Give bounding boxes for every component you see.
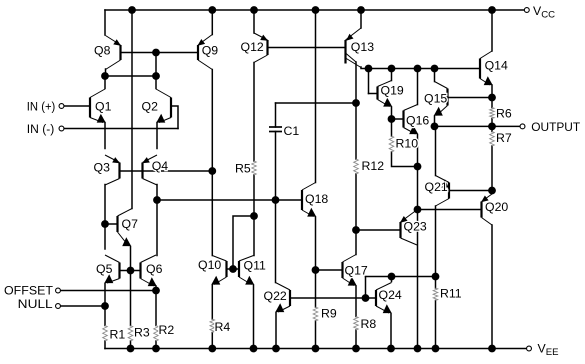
transistor Q11 emitter arrow xyxy=(245,276,254,285)
wire NULL to R1 top node xyxy=(61,305,105,307)
transistor Q24 top lead xyxy=(376,283,392,291)
wire Q10/Q11 base link xyxy=(227,268,240,270)
svg-text:R2: R2 xyxy=(159,323,175,337)
transistor Q8 bar xyxy=(119,45,121,60)
resistor R3 xyxy=(128,326,133,342)
transistor Q4 bottom lead xyxy=(143,179,158,186)
resistor R9 xyxy=(313,307,318,321)
terminal NULL xyxy=(56,304,61,309)
junction VEE/R9 xyxy=(312,345,320,353)
wire Q13 collector 1 down to R12 node xyxy=(355,62,357,103)
transistor Q22 emitter arrow xyxy=(275,303,284,312)
terminal IN(+) xyxy=(59,104,64,109)
wire Q24 base node up to collector node xyxy=(365,277,367,299)
svg-text:Q14: Q14 xyxy=(485,59,508,73)
wire Q6 emitter down to OFFSET node xyxy=(155,286,157,291)
transistor Q16 bottom lead xyxy=(404,128,416,135)
junction VCC/Q7 collector xyxy=(128,6,136,14)
transistor Q16 emitter arrow xyxy=(409,125,418,134)
svg-text:Q18: Q18 xyxy=(305,192,328,206)
svg-text:Q19: Q19 xyxy=(381,84,404,98)
transistor Q24 emitter arrow xyxy=(383,304,392,313)
wire Q19 base link xyxy=(369,93,378,95)
junction VCC/Q13 emitter xyxy=(357,6,365,14)
transistor Q5 emitter arrow xyxy=(104,274,113,283)
junction VEE/R11 xyxy=(432,345,440,353)
transistor Q14 bottom lead xyxy=(480,79,490,86)
wire Q21 base link xyxy=(449,190,492,192)
wire NULL node down to R1 xyxy=(104,306,106,326)
resistor R7 xyxy=(490,132,495,147)
junction VEE/Q20 collector xyxy=(488,345,496,353)
wire Q8 collector down to node xyxy=(105,69,107,76)
junction Q24 base node xyxy=(362,294,370,302)
svg-text:R8: R8 xyxy=(361,317,377,331)
svg-text:Q24: Q24 xyxy=(379,288,402,302)
wire Q10 emitter down to R4 xyxy=(211,285,213,319)
wire node down to Q11 collector diag xyxy=(253,216,255,256)
transistor Q21 emitter lead xyxy=(436,176,450,183)
terminal VCC xyxy=(524,8,529,13)
wire Q5/Q6 base node down to R3 xyxy=(130,271,132,326)
junction Q21 collector - R11 xyxy=(432,273,440,281)
wire Q17 base node down to R9 xyxy=(315,270,317,307)
transistor Q23 bottom lead xyxy=(401,238,418,245)
svg-text:Q22: Q22 xyxy=(264,289,287,303)
junction OFFSET - Q6 emitter xyxy=(152,287,160,295)
junction bias rail - Q15 collector xyxy=(431,65,439,73)
wire Q8 collector node link xyxy=(105,75,156,77)
junction C1 top - R12 top xyxy=(352,99,360,107)
wire base node down to Q8 collector node xyxy=(155,53,157,77)
transistor Q12 bar xyxy=(266,40,268,55)
junction VCC/Q18 collector xyxy=(312,6,320,14)
svg-text:NULL: NULL xyxy=(18,297,53,311)
svg-text:IN (-): IN (-) xyxy=(27,122,55,136)
transistor Q3 bottom lead xyxy=(105,179,120,186)
wire OFFSET node down to R2 xyxy=(155,291,157,326)
transistor Q8 top lead xyxy=(106,36,121,46)
transistor Q11 top lead xyxy=(239,256,254,262)
transistor Q8 bottom lead xyxy=(106,60,121,70)
junction Q24 collector node xyxy=(388,273,396,281)
transistor Q21 collector lead xyxy=(436,199,450,207)
junction VEE/Q20-base column xyxy=(414,345,422,353)
transistor Q16 top lead xyxy=(404,105,418,111)
svg-text:VEE: VEE xyxy=(538,342,559,359)
wire Q24 emitter down to VEE rail xyxy=(390,314,392,349)
wire R1 bottom to VEE rail xyxy=(104,341,106,349)
svg-text:Q10: Q10 xyxy=(198,258,221,272)
svg-text:R6: R6 xyxy=(496,107,512,121)
junction VEE/R4 xyxy=(208,345,216,353)
svg-text:Q13: Q13 xyxy=(351,40,374,54)
transistor Q15 bottom lead xyxy=(437,106,448,116)
transistor Q9 emitter arrow xyxy=(198,39,206,46)
wire IN(+) to Q1 base xyxy=(64,105,90,107)
svg-text:Q4: Q4 xyxy=(152,159,169,173)
transistor Q7 bottom lead xyxy=(118,232,129,246)
wire Q12 collector down to R5 xyxy=(253,63,255,162)
junction VEE/Q24 emitter xyxy=(387,345,395,353)
resistor R2 xyxy=(154,326,159,342)
junction Q20 base node xyxy=(414,206,422,214)
wire R2 bottom to VEE rail xyxy=(155,341,157,349)
transistor Q23 emitter arrow xyxy=(400,216,408,223)
svg-text:Q5: Q5 xyxy=(96,262,113,276)
junction VEE/R2 xyxy=(152,345,160,353)
transistor Q15 top lead xyxy=(435,82,448,89)
wire R9 bottom to VEE rail xyxy=(315,321,317,349)
wire Q19 emitter down to Q16 base node xyxy=(391,107,393,119)
transistor Q6 top lead xyxy=(141,255,157,263)
transistor Q5 bar xyxy=(118,263,120,279)
transistor Q18 top lead xyxy=(302,183,316,191)
wire R11 node down to R11 xyxy=(435,277,437,289)
svg-text:IN (+): IN (+) xyxy=(27,100,56,114)
wire Q22 emitter down to VEE rail xyxy=(275,313,277,349)
transistor Q2 bar xyxy=(170,98,172,118)
wire Q5/Q6 base link xyxy=(120,270,141,272)
transistor Q12 emitter arrow xyxy=(260,35,268,41)
svg-text:Q8: Q8 xyxy=(94,44,111,58)
wire R5 bottom to Q11 collector node xyxy=(253,175,255,216)
wire bias node down to Q19 base xyxy=(368,69,370,94)
transistor Q18 bar xyxy=(301,190,303,210)
svg-text:R9: R9 xyxy=(321,307,337,321)
wire Q15 base node down to R6 xyxy=(491,98,493,108)
junction Q4/Q6 collectors node xyxy=(153,196,161,204)
transistor Q13 collector 2 lead xyxy=(346,58,362,68)
wire Q1 emitter down to Q3 emitter xyxy=(104,123,106,149)
transistor Q13 bar xyxy=(344,40,346,64)
resistor R4 xyxy=(210,319,215,333)
transistor Q17 top lead xyxy=(343,255,357,263)
wire C1 top lead xyxy=(275,103,277,127)
transistor Q17 bottom lead xyxy=(343,278,355,286)
transistor Q19 bottom lead xyxy=(378,100,390,107)
resistor R12 xyxy=(354,159,359,174)
transistor Q20 bar xyxy=(480,202,482,218)
wire output node to OUTPUT terminal xyxy=(492,125,520,127)
transistor Q3 top lead xyxy=(105,155,120,163)
wire R12 node down to R12 xyxy=(355,103,357,159)
wire VCC corner down to Q8 emitter xyxy=(104,10,106,35)
junction output node xyxy=(488,123,496,131)
transistor Q22 bottom lead xyxy=(278,306,290,312)
svg-text:Q20: Q20 xyxy=(485,200,508,214)
wire Q22 base to Q24 base xyxy=(290,297,376,299)
capacitor C1 xyxy=(269,127,282,132)
transistor Q15 emitter arrow xyxy=(434,107,443,116)
wire Q20 base node down to VEE rail xyxy=(417,210,419,349)
wire node down to Q6 collector xyxy=(156,200,158,256)
wire output node down to Q21 emitter xyxy=(435,126,437,175)
svg-text:Q16: Q16 xyxy=(406,114,429,128)
junction Q21 base - R7 xyxy=(488,187,496,195)
transistor Q2 bottom lead xyxy=(159,118,171,123)
wire Q11 emitter down to VEE rail xyxy=(253,285,255,349)
svg-text:Q2: Q2 xyxy=(142,100,159,114)
svg-text:Q11: Q11 xyxy=(244,259,266,273)
svg-text:VCC: VCC xyxy=(533,4,555,21)
transistor Q19 emitter arrow xyxy=(383,98,392,107)
svg-text:Q15: Q15 xyxy=(424,92,447,106)
wire Q5 emitter down to NULL node xyxy=(104,284,106,307)
junction Q18 emitter - Q17 base xyxy=(312,266,320,274)
wire Q1 base stub xyxy=(89,105,91,107)
wire VCC rail xyxy=(105,9,524,11)
wire R3 bottom to VEE rail xyxy=(130,341,132,349)
svg-text:R4: R4 xyxy=(215,320,231,334)
wire Q21 base node down to Q20 emitter xyxy=(491,191,493,194)
transistor Q24 bar xyxy=(375,290,377,306)
wire Q20 collector down to VEE rail xyxy=(491,225,493,349)
transistor Q1 bar xyxy=(89,98,91,118)
wire node down to Q1 collector xyxy=(104,76,106,89)
wire Q24 collector stub xyxy=(391,277,393,282)
transistor Q8 emitter arrow xyxy=(113,39,121,46)
wire Q3 collector down to Q7 base node xyxy=(104,185,106,225)
transistor Q10 bar xyxy=(225,261,227,277)
transistor Q16 bar xyxy=(402,111,404,128)
wire Q7 base to Q3 collector line xyxy=(105,223,118,225)
transistor Q7 top lead xyxy=(118,209,133,217)
transistor Q20 emitter arrow xyxy=(481,196,489,203)
transistor Q14 emitter arrow xyxy=(484,76,493,85)
transistor Q6 bottom lead xyxy=(141,279,155,287)
transistor Q9 bottom lead xyxy=(198,60,212,70)
svg-text:Q7: Q7 xyxy=(122,217,139,231)
transistor Q7 bar xyxy=(116,216,118,232)
junction NULL - Q5 emitter xyxy=(101,302,109,310)
transistor Q22 top lead xyxy=(276,283,291,291)
junction Q11 collector tie xyxy=(250,212,258,220)
junction VCC/Q9 emitter xyxy=(208,6,216,14)
transistor Q4 emitter arrow xyxy=(142,157,150,163)
transistor Q22 bar xyxy=(289,290,291,306)
transistor Q13 emitter arrow xyxy=(346,34,354,41)
junction Q7 base - Q3 collector xyxy=(101,220,109,228)
resistor R6 xyxy=(490,108,495,119)
transistor Q4 bar xyxy=(141,163,143,179)
junction Q10/Q11 base xyxy=(229,265,237,273)
wire Q19 collector up to bias node xyxy=(391,69,393,81)
svg-text:OFFSET: OFFSET xyxy=(4,284,53,298)
transistor Q19 bar xyxy=(376,87,378,100)
transistor Q17 bar xyxy=(341,262,343,278)
wire Q23 base node down to Q17 collector xyxy=(355,230,357,255)
transistor Q15 bar xyxy=(446,89,448,106)
junction Q3/Q4 base - Q9 collector xyxy=(208,167,216,175)
junction VEE/Q22 emitter xyxy=(272,345,280,353)
svg-text:C1: C1 xyxy=(284,124,300,138)
wire R11 bottom to VEE rail xyxy=(435,301,437,349)
wire Q7 base node down to Q5 collector xyxy=(104,224,106,249)
wire VCC down to Q7 collector xyxy=(131,10,133,209)
svg-text:Q12: Q12 xyxy=(241,40,264,54)
wire Q8/Q9 base link xyxy=(121,52,199,54)
terminal OFFSET xyxy=(56,288,61,293)
transistor Q23 bar xyxy=(399,222,401,238)
wire VCC down to Q18 collector xyxy=(315,10,317,183)
transistor Q23 top lead xyxy=(401,211,417,223)
svg-text:Q21: Q21 xyxy=(425,180,448,194)
wire output node down to R7 xyxy=(491,126,493,131)
transistor Q13 collector 1 lead xyxy=(346,53,357,62)
wire VCC down to Q9 emitter xyxy=(211,10,213,35)
svg-text:Q17: Q17 xyxy=(345,264,368,278)
wire Q16 base node down to R10 xyxy=(391,119,393,136)
svg-text:Q23: Q23 xyxy=(404,220,427,234)
transistor Q20 bottom lead xyxy=(482,218,493,226)
svg-text:Q9: Q9 xyxy=(202,44,219,58)
wire C1 top to R12 node xyxy=(276,102,357,104)
transistor Q9 bar xyxy=(197,45,199,60)
svg-text:R3: R3 xyxy=(134,326,150,340)
junction Q5/Q6 base - Q7 emitter xyxy=(127,267,135,275)
wire second stage node to Q18 base xyxy=(157,199,302,201)
wire VCC down to Q14 collector xyxy=(491,10,493,51)
resistor R1 xyxy=(103,326,108,342)
transistor Q9 top lead xyxy=(198,35,212,46)
transistor Q11 bar xyxy=(238,261,240,277)
junction bias rail - Q19 base xyxy=(365,65,373,73)
resistor R10 xyxy=(389,136,394,152)
junction Q23 base - R12 xyxy=(352,226,360,234)
wire VCC down to Q12 emitter xyxy=(253,10,255,33)
wire Q3/Q4 base to Q9 collector line xyxy=(120,170,213,172)
transistor Q20 top lead xyxy=(482,194,493,202)
terminal IN(-) xyxy=(59,126,64,131)
transistor Q24 bottom lead xyxy=(376,306,389,313)
wire output node link to R6/R7 node xyxy=(435,125,493,127)
wire R12 bottom to Q23 base node xyxy=(355,174,357,230)
wire Q2 emitter down to Q4 emitter xyxy=(156,123,158,149)
junction Q14 emitter - Q15 base xyxy=(488,94,496,102)
wire VCC down to Q13 emitter xyxy=(360,10,362,28)
wire Q17 base node link xyxy=(316,269,343,271)
transistor Q6 bar xyxy=(139,263,141,279)
wire Q16 emitter down to node xyxy=(417,135,419,167)
junction VCC/Q12 emitter xyxy=(250,6,258,14)
wire bias node down to Q15 collector xyxy=(434,69,436,82)
wire C1 bottom lead down to node A xyxy=(275,132,277,201)
transistor Q13 emitter lead xyxy=(346,28,362,40)
junction Q2 collector node xyxy=(152,72,160,80)
transistor Q12 bottom lead xyxy=(254,55,268,63)
transistor Q21 emitter arrow xyxy=(441,179,448,187)
junction Q8 base/collector tie xyxy=(152,49,160,57)
wire bias node down to Q16 collector xyxy=(417,69,419,105)
junction bias rail - Q16 collector xyxy=(414,65,422,73)
transistor Q14 bar xyxy=(479,59,481,79)
junction Q19 emitter - Q16 base xyxy=(388,115,396,123)
resistor R5 xyxy=(252,161,257,175)
transistor Q2 emitter arrow xyxy=(156,114,165,123)
wire R8 bottom to VEE rail xyxy=(355,330,357,349)
wire Q15 emitter down to output node xyxy=(434,116,436,126)
svg-text:R10: R10 xyxy=(396,137,419,151)
svg-text:Q1: Q1 xyxy=(95,100,112,114)
wire R7 bottom to Q21 base node xyxy=(491,146,493,191)
wire Q7 emitter down to Q5/Q6 base node xyxy=(130,247,132,271)
svg-text:R5: R5 xyxy=(235,162,251,176)
transistor Q3 emitter arrow xyxy=(112,157,120,163)
wire node down to Q20 base node xyxy=(417,167,419,210)
svg-text:R11: R11 xyxy=(440,287,462,301)
junction VCC/Q14 collector xyxy=(488,6,496,14)
wire Q17 emitter down to R8 xyxy=(355,286,357,317)
transistor Q18 emitter arrow xyxy=(307,208,316,217)
svg-text:Q3: Q3 xyxy=(94,161,111,175)
wire Q4 collector down to node xyxy=(156,185,158,201)
transistor Q4 top lead xyxy=(143,155,158,163)
junction VEE/R3 xyxy=(127,345,135,353)
transistor Q21 bar xyxy=(448,183,450,199)
svg-text:Q6: Q6 xyxy=(146,262,163,276)
resistor R11 xyxy=(433,288,438,301)
junction C1 bottom node xyxy=(272,196,280,204)
svg-text:R7: R7 xyxy=(496,131,512,145)
transistor Q10 top lead xyxy=(212,256,226,262)
wire node A down to Q22 collector xyxy=(275,200,277,283)
transistor Q10 bottom lead xyxy=(214,277,227,285)
wire Q2 base jog xyxy=(171,106,178,129)
junction bias rail - Q19 collector xyxy=(388,65,396,73)
junction R10 - Q16 emitter xyxy=(414,163,422,171)
svg-text:OUTPUT: OUTPUT xyxy=(531,120,580,134)
svg-text:R1: R1 xyxy=(110,328,126,342)
wire Q3/Q4 base node down to Q10 collector xyxy=(211,171,213,256)
wire Q14 emitter down to Q15 base node xyxy=(491,85,493,98)
transistor Q2 top lead xyxy=(156,89,171,98)
wire Q12/Q13 base link xyxy=(268,47,346,49)
wire Q18 emitter down to Q17 base node xyxy=(315,217,317,270)
wire R10 bottom to Q16 emitter node xyxy=(392,152,418,167)
wire Q10/Q11 base tie to Q11 collector xyxy=(233,216,254,269)
terminal VEE xyxy=(527,346,532,351)
resistor R8 xyxy=(354,317,359,331)
wire IN(-) to Q2 base corner xyxy=(64,128,178,130)
transistor Q14 top lead xyxy=(480,51,492,59)
wire Q24 collector node wire xyxy=(366,276,436,278)
junction VEE/R8 xyxy=(352,345,360,353)
junction Q8 collector node xyxy=(101,72,109,80)
transistor Q6 emitter arrow xyxy=(148,277,157,286)
transistor Q11 bottom lead xyxy=(239,277,252,285)
wire R6 bottom to output node xyxy=(491,119,493,127)
transistor Q5 top lead xyxy=(105,255,120,263)
wire node down to Q2 collector xyxy=(155,76,157,89)
transistor Q17 emitter arrow xyxy=(348,277,357,286)
svg-text:R12: R12 xyxy=(362,159,385,173)
transistor Q19 top lead xyxy=(378,81,392,87)
wire OFFSET to Q6 emitter node xyxy=(61,290,156,292)
junction VEE/Q11 emitter xyxy=(250,345,258,353)
wire Q16 base link xyxy=(392,118,404,120)
transistor Q7 emitter arrow xyxy=(122,237,131,246)
wire Q9 collector down to Q3/Q4 base node xyxy=(211,70,213,172)
wire Q23 base node link xyxy=(356,229,401,231)
terminal OUTPUT xyxy=(520,124,525,129)
wire Q20 base link xyxy=(418,209,482,211)
transistor Q10 emitter arrow xyxy=(211,276,220,285)
transistor Q1 emitter arrow xyxy=(97,114,106,123)
wire R4 bottom to VEE rail xyxy=(211,333,213,349)
wire VEE rail xyxy=(105,348,526,350)
wire Q21 collector down to R11 node xyxy=(435,206,437,277)
